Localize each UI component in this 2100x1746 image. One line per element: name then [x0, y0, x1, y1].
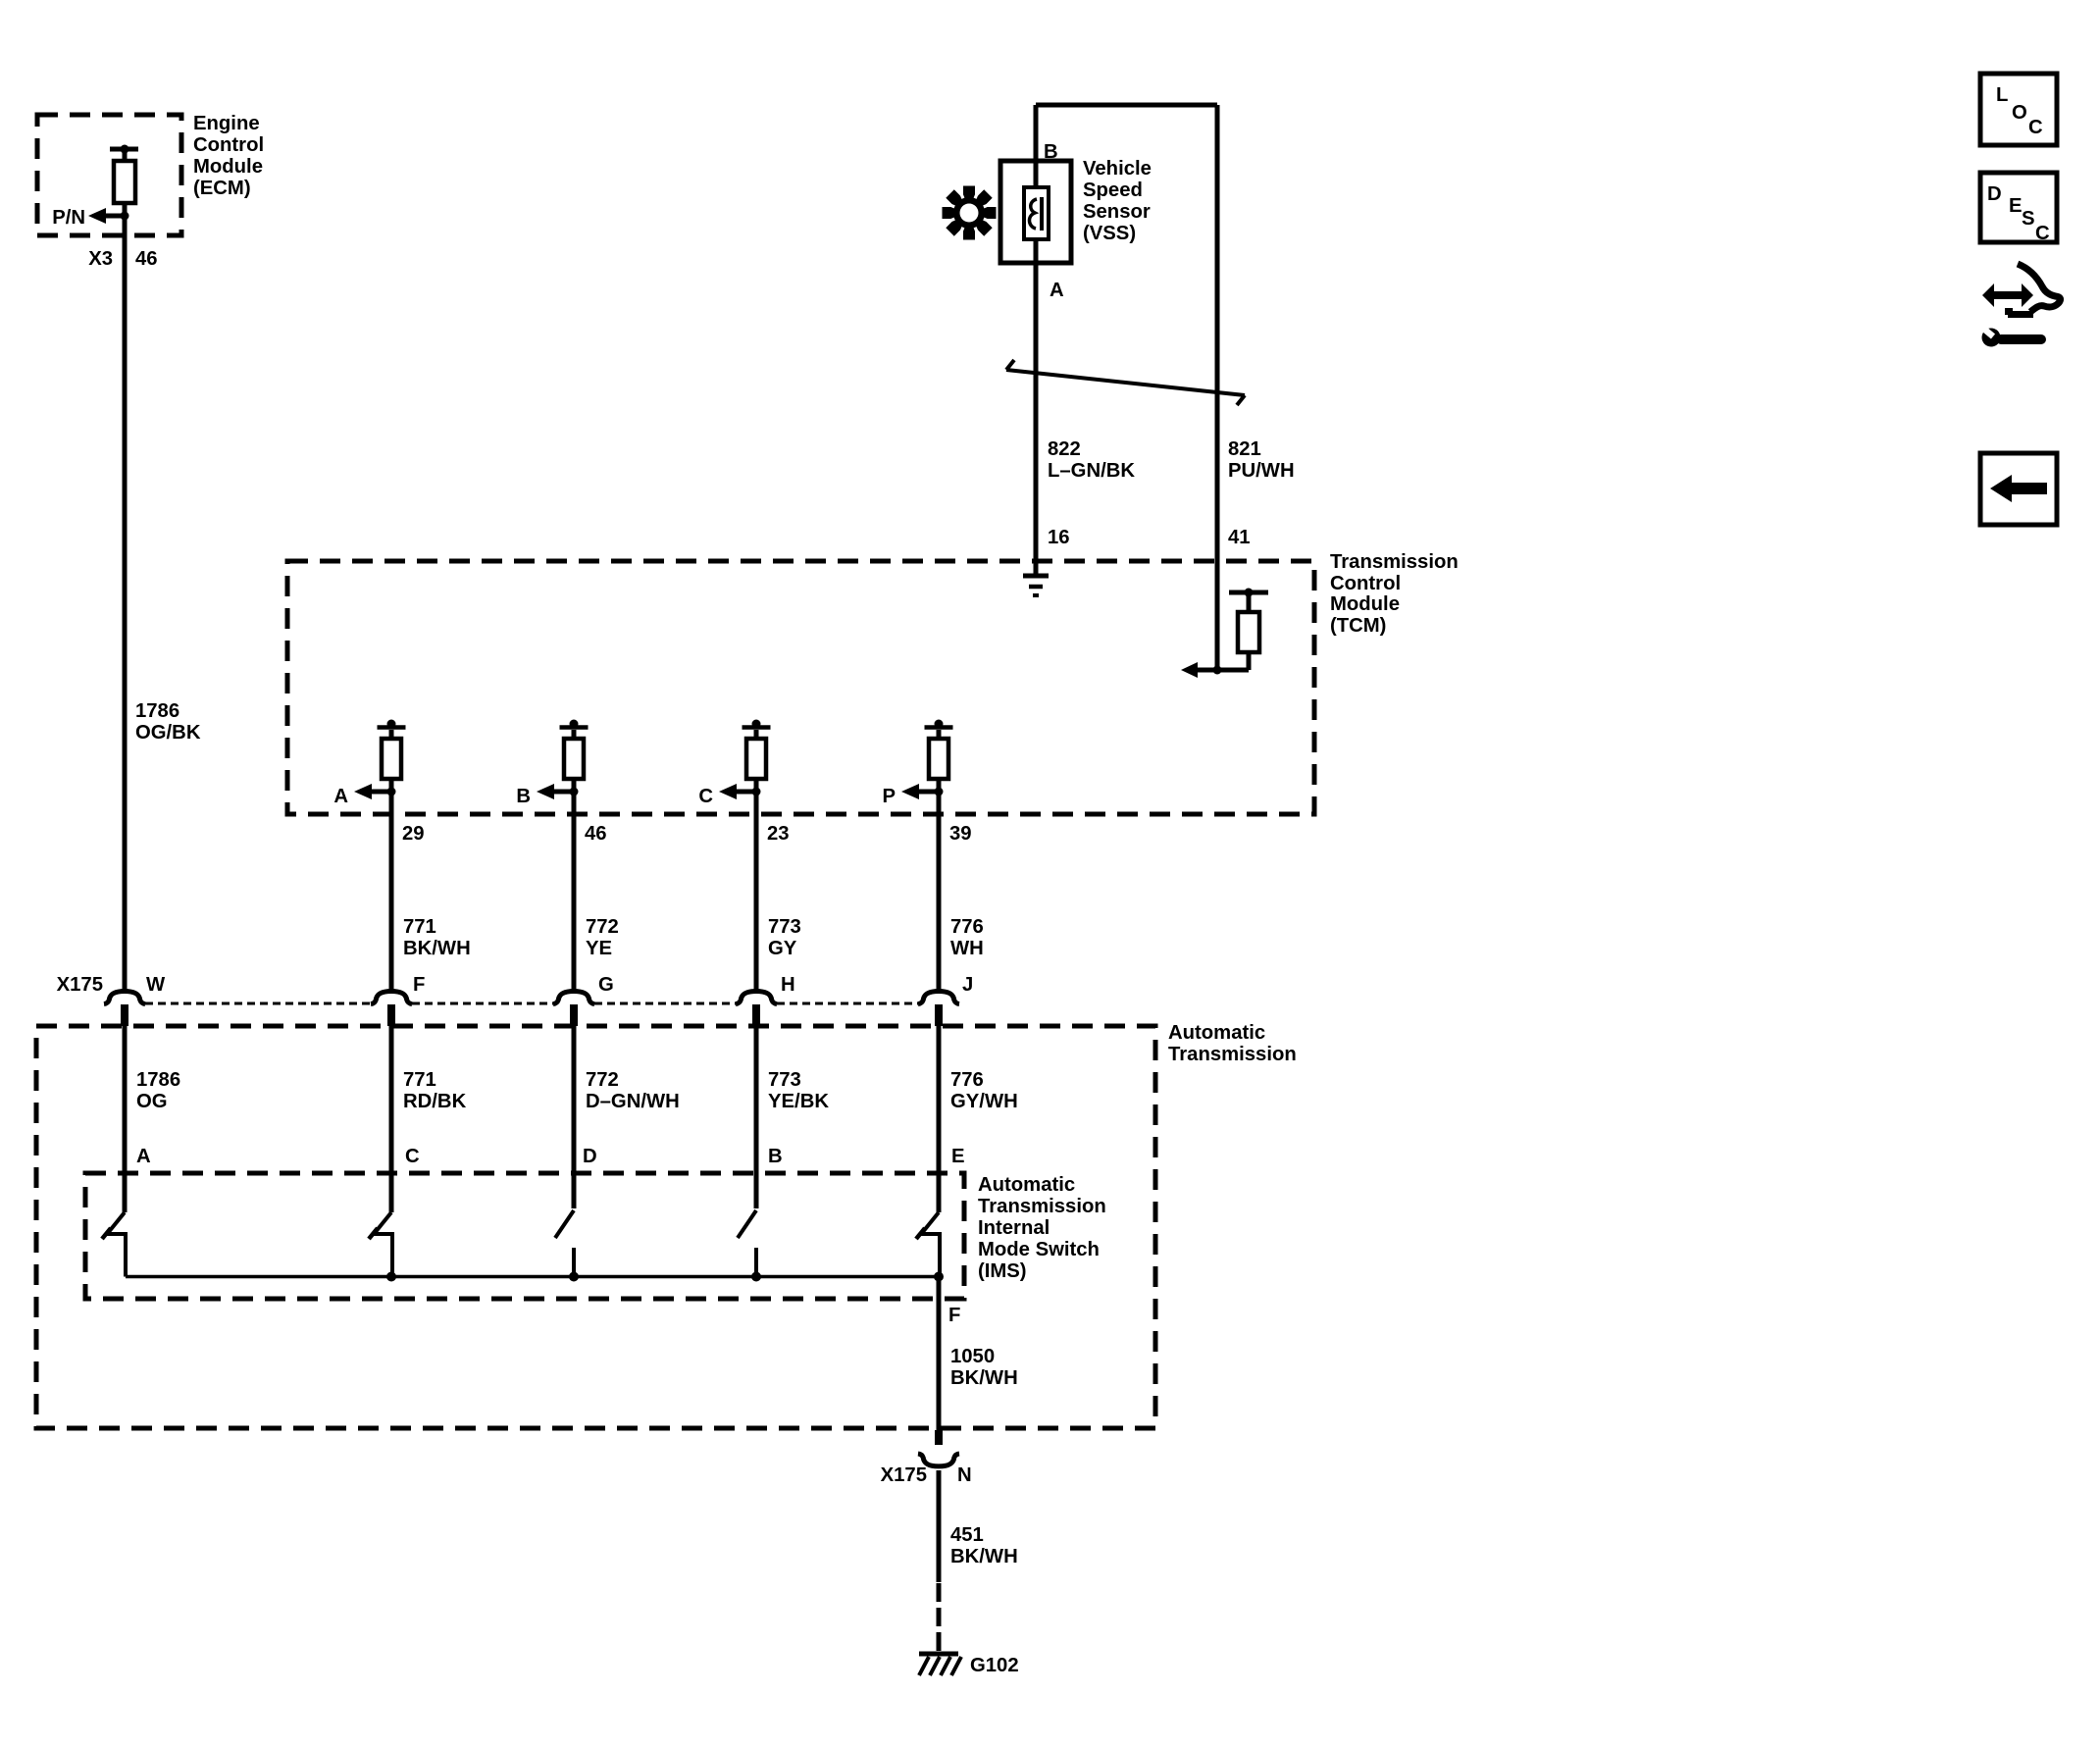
svg-text:GY/WH: GY/WH: [950, 1091, 1018, 1112]
svg-text:B: B: [1044, 141, 1058, 163]
svg-text:W: W: [146, 974, 166, 996]
svg-text:Control: Control: [1330, 573, 1401, 594]
svg-text:A: A: [1050, 280, 1064, 301]
svg-text:A: A: [136, 1146, 151, 1167]
svg-text:X175: X175: [881, 1464, 927, 1486]
svg-text:YE: YE: [586, 938, 612, 959]
svg-text:Transmission: Transmission: [1168, 1044, 1297, 1065]
svg-text:(IMS): (IMS): [978, 1260, 1027, 1282]
svg-text:(ECM): (ECM): [193, 178, 251, 199]
svg-text:P/N: P/N: [52, 207, 85, 229]
svg-text:F: F: [948, 1305, 960, 1326]
svg-text:Speed: Speed: [1083, 180, 1143, 201]
svg-text:Automatic: Automatic: [1168, 1022, 1265, 1044]
svg-text:O: O: [2012, 102, 2027, 124]
svg-text:D: D: [583, 1146, 597, 1167]
svg-text:D: D: [1987, 183, 2002, 205]
svg-text:E: E: [2009, 195, 2023, 217]
svg-text:Automatic: Automatic: [978, 1174, 1075, 1196]
svg-text:N: N: [957, 1464, 972, 1486]
svg-text:773: 773: [768, 916, 801, 938]
svg-text:BK/WH: BK/WH: [950, 1367, 1018, 1389]
svg-text:C: C: [698, 786, 713, 807]
svg-text:YE/BK: YE/BK: [768, 1091, 829, 1112]
svg-text:46: 46: [585, 823, 607, 845]
svg-text:X175: X175: [57, 974, 103, 996]
svg-text:P: P: [882, 786, 896, 807]
svg-text:(TCM): (TCM): [1330, 615, 1386, 637]
svg-text:772: 772: [586, 916, 619, 938]
svg-text:H: H: [781, 974, 795, 996]
svg-text:L–GN/BK: L–GN/BK: [1048, 460, 1135, 482]
svg-text:BK/WH: BK/WH: [403, 938, 471, 959]
svg-text:16: 16: [1048, 527, 1070, 548]
svg-text:41: 41: [1228, 527, 1251, 548]
svg-text:A: A: [333, 786, 348, 807]
svg-text:S: S: [2022, 208, 2035, 230]
svg-text:RD/BK: RD/BK: [403, 1091, 467, 1112]
svg-text:Transmission: Transmission: [978, 1196, 1106, 1217]
svg-text:Engine: Engine: [193, 113, 260, 134]
svg-text:771: 771: [403, 1069, 436, 1091]
svg-text:23: 23: [767, 823, 790, 845]
svg-text:Vehicle: Vehicle: [1083, 158, 1152, 180]
svg-text:Internal: Internal: [978, 1217, 1050, 1239]
svg-text:Sensor: Sensor: [1083, 201, 1151, 223]
svg-text:1786: 1786: [135, 700, 179, 722]
svg-text:39: 39: [949, 823, 972, 845]
svg-text:C: C: [2035, 223, 2050, 244]
svg-text:F: F: [413, 974, 425, 996]
svg-text:Control: Control: [193, 134, 264, 156]
svg-text:D–GN/WH: D–GN/WH: [586, 1091, 680, 1112]
svg-text:Transmission: Transmission: [1330, 551, 1459, 573]
svg-text:L: L: [1996, 84, 2008, 106]
svg-text:X3: X3: [88, 248, 113, 270]
svg-text:771: 771: [403, 916, 436, 938]
svg-text:B: B: [516, 786, 531, 807]
svg-text:821: 821: [1228, 438, 1261, 460]
svg-text:OG/BK: OG/BK: [135, 722, 201, 744]
svg-text:BK/WH: BK/WH: [950, 1546, 1018, 1567]
svg-text:776: 776: [950, 1069, 984, 1091]
svg-text:PU/WH: PU/WH: [1228, 460, 1295, 482]
svg-text:G102: G102: [970, 1655, 1019, 1676]
svg-text:822: 822: [1048, 438, 1081, 460]
svg-text:WH: WH: [950, 938, 984, 959]
svg-text:451: 451: [950, 1524, 984, 1546]
svg-text:J: J: [962, 974, 973, 996]
svg-text:B: B: [768, 1146, 783, 1167]
svg-text:GY: GY: [768, 938, 797, 959]
svg-text:Module: Module: [1330, 593, 1400, 615]
svg-text:776: 776: [950, 916, 984, 938]
svg-text:46: 46: [135, 248, 158, 270]
svg-text:G: G: [598, 974, 614, 996]
svg-text:1786: 1786: [136, 1069, 180, 1091]
svg-text:E: E: [951, 1146, 965, 1167]
svg-text:C: C: [2028, 117, 2043, 138]
svg-text:1050: 1050: [950, 1346, 995, 1367]
svg-text:OG: OG: [136, 1091, 168, 1112]
svg-text:29: 29: [402, 823, 425, 845]
svg-text:Module: Module: [193, 156, 263, 178]
svg-text:Mode Switch: Mode Switch: [978, 1239, 1100, 1260]
svg-text:C: C: [405, 1146, 420, 1167]
svg-text:(VSS): (VSS): [1083, 223, 1136, 244]
svg-text:772: 772: [586, 1069, 619, 1091]
svg-text:773: 773: [768, 1069, 801, 1091]
